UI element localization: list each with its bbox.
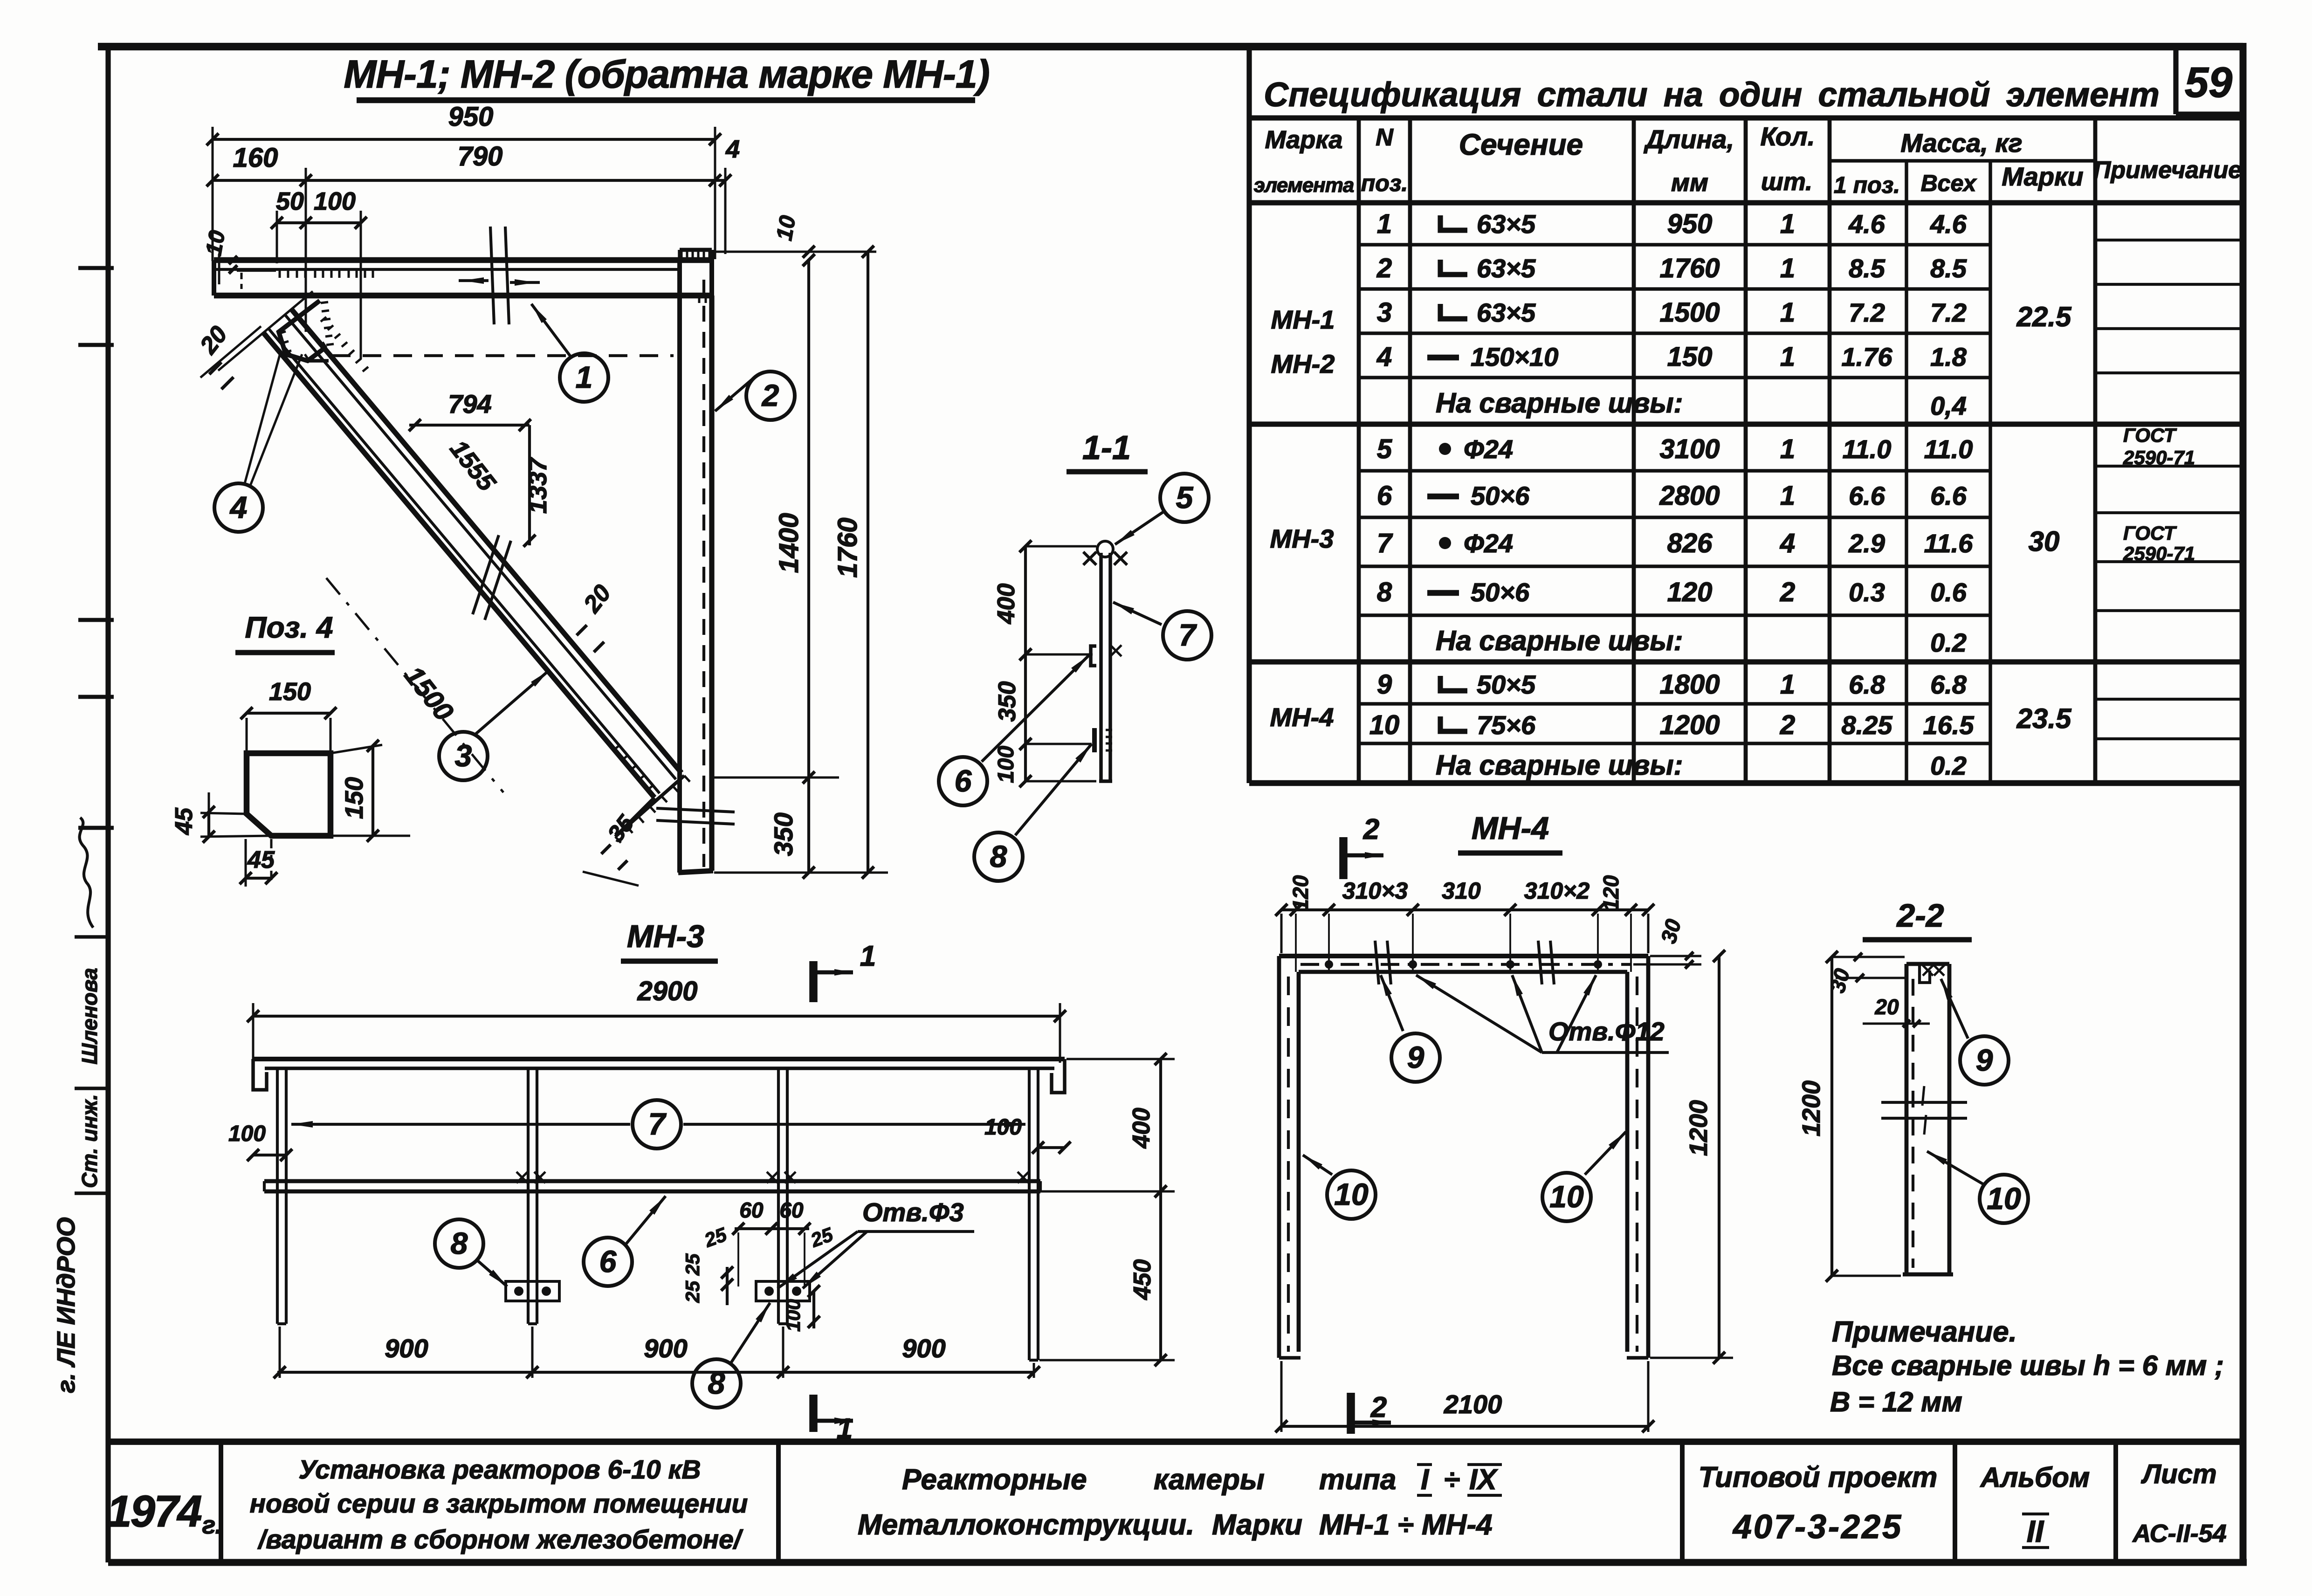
title block album [1980, 1462, 2090, 1548]
mn4 callout 9 [1381, 975, 1440, 1082]
svg-text:1: 1 [1377, 209, 1392, 239]
mn3 callout 8 bottom [692, 1303, 770, 1408]
svg-text:11.0: 11.0 [1924, 434, 1973, 464]
svg-text:310×3: 310×3 [1342, 878, 1408, 904]
svg-text:г.: г. [202, 1511, 222, 1539]
brace pos 3 diagonal angle [264, 309, 690, 843]
callout circle 3 brace [439, 670, 549, 780]
callout circle 4 gusset [214, 354, 302, 532]
mn4 right post pos 10 [1627, 956, 1648, 1358]
svg-text:МН-4: МН-4 [1472, 811, 1549, 846]
svg-text:10: 10 [1549, 1179, 1584, 1214]
mn4 callout 10 right [1542, 1132, 1626, 1221]
svg-text:4: 4 [1780, 528, 1795, 558]
svg-text:50×5: 50×5 [1477, 670, 1536, 699]
svg-text:0.2: 0.2 [1930, 751, 1967, 780]
callout 5 [1115, 474, 1209, 544]
svg-text:2: 2 [1780, 710, 1795, 740]
svg-text:63×5: 63×5 [1477, 298, 1536, 327]
break symbol on brace [473, 535, 511, 620]
svg-text:400: 400 [993, 584, 1020, 625]
svg-text:ГОСТ: ГОСТ [2123, 522, 2177, 544]
svg-text:1: 1 [1780, 253, 1795, 283]
svg-text:100: 100 [984, 1115, 1022, 1140]
svg-text:6.6: 6.6 [1930, 481, 1967, 510]
svg-text:63×5: 63×5 [1477, 254, 1536, 283]
svg-text:100: 100 [314, 187, 356, 215]
mn4 callout 10 left [1303, 1155, 1376, 1219]
svg-text:100: 100 [994, 746, 1018, 783]
svg-text:АС-II-54: АС-II-54 [2132, 1520, 2226, 1548]
mn3 posts pos 7 [277, 1068, 1038, 1360]
svg-text:шт.: шт. [1761, 168, 1812, 196]
mn3 hole dims 60 60 25 [681, 1198, 836, 1332]
spec table outer box and grid [1249, 47, 2243, 783]
svg-text:10: 10 [1334, 1177, 1369, 1211]
svg-text:6: 6 [599, 1244, 617, 1279]
section 1-1 rod pos 5 end [1083, 541, 1127, 565]
svg-text:9: 9 [1377, 669, 1392, 700]
left margin stamp text: signature [80, 818, 93, 928]
mn4 section mark 2 bottom [1351, 1391, 1391, 1434]
svg-text:В = 12 мм: В = 12 мм [1830, 1386, 1962, 1417]
svg-text:9: 9 [1976, 1043, 1993, 1077]
dimension 1400 [774, 254, 815, 784]
spec table title text [1264, 76, 2160, 114]
svg-text:Отв.Ф3: Отв.Ф3 [862, 1197, 964, 1227]
svg-text:59: 59 [2185, 59, 2232, 106]
svg-text:МН-4: МН-4 [1270, 702, 1334, 732]
svg-text:794: 794 [448, 389, 491, 419]
left margin stamp text: Shlenova [77, 968, 102, 1064]
svg-text:1500: 1500 [1659, 297, 1720, 328]
svg-text:4.6: 4.6 [1930, 209, 1967, 239]
svg-text:100: 100 [782, 1299, 804, 1332]
poz4 plate outline [247, 753, 330, 836]
svg-text:60: 60 [739, 1198, 764, 1222]
svg-text:1: 1 [1780, 209, 1795, 239]
view title MN-1; MN-2 (obratna marke MN-1) [344, 52, 989, 100]
mn4 top dimension row 120 310x3 310 310x2 120 [1275, 875, 1654, 972]
svg-text:2: 2 [1376, 253, 1392, 283]
svg-text:8: 8 [451, 1226, 468, 1260]
svg-text:0.2: 0.2 [1930, 628, 1967, 657]
svg-text:0,4: 0,4 [1930, 391, 1967, 420]
svg-text:2590-71: 2590-71 [2123, 447, 2195, 468]
svg-text:950: 950 [448, 102, 494, 132]
svg-text:1337: 1337 [524, 456, 552, 514]
svg-text:150×10: 150×10 [1471, 342, 1558, 371]
section 1-1 bar pos 7 [1099, 553, 1112, 781]
mn3 dimension 900 row [274, 1327, 1040, 1378]
svg-text:60: 60 [779, 1198, 804, 1222]
svg-text:10: 10 [1987, 1181, 2021, 1216]
mn4 label Otv F12 [1416, 975, 1669, 1053]
view title MN-3 [621, 919, 718, 961]
svg-text:10: 10 [1369, 710, 1400, 740]
dimension 50 and 100 [271, 187, 367, 229]
column pos 2 vertical angle [678, 260, 713, 873]
svg-text:50×6: 50×6 [1471, 578, 1530, 607]
svg-text:÷: ÷ [1444, 1464, 1460, 1496]
svg-text:7: 7 [648, 1107, 667, 1141]
svg-text:Поз. 4: Поз. 4 [245, 611, 333, 644]
svg-text:1: 1 [1780, 297, 1795, 328]
svg-text:4.6: 4.6 [1848, 209, 1885, 239]
svg-text:7.2: 7.2 [1930, 298, 1967, 327]
svg-text:новой серии в закрытом помещен: новой серии в закрытом помещении [250, 1489, 748, 1519]
svg-text:7.2: 7.2 [1849, 298, 1885, 327]
svg-text:На сварные швы:: На сварные швы: [1436, 625, 1683, 656]
svg-text:1.76: 1.76 [1842, 342, 1893, 371]
mn4 dimension 2100 [1275, 1361, 1654, 1432]
svg-text:МН-3: МН-3 [1270, 524, 1334, 553]
svg-text:350: 350 [994, 681, 1021, 722]
svg-text:Марка: Марка [1265, 126, 1343, 154]
svg-text:3: 3 [455, 738, 472, 773]
svg-text:поз.: поз. [1361, 170, 1408, 196]
section 2-2 post pos 10 profile [1903, 964, 1953, 1274]
svg-text:400: 400 [1128, 1108, 1155, 1149]
view title MN-4 [1458, 811, 1562, 853]
svg-text:Альбом: Альбом [1980, 1462, 2090, 1493]
right side dimension 10 top [715, 213, 876, 266]
svg-text:Длина,: Длина, [1644, 124, 1734, 154]
svg-text:Металлоконструкции.: Металлоконструкции. [858, 1509, 1194, 1541]
title block grid [108, 1442, 2243, 1562]
svg-text:75×6: 75×6 [1477, 710, 1536, 740]
svg-text:16.5: 16.5 [1923, 710, 1975, 740]
svg-text:120: 120 [1667, 577, 1713, 607]
svg-text:1800: 1800 [1659, 669, 1720, 700]
section 2-2 flange hook pos 9 weld [1920, 964, 1944, 983]
svg-text:1: 1 [1780, 669, 1795, 700]
svg-text:6.8: 6.8 [1930, 670, 1967, 699]
svg-text:Спецификация стали на один: Спецификация стали на один стальной элем… [1264, 76, 2160, 114]
svg-text:камеры: камеры [1154, 1464, 1265, 1496]
svg-text:6: 6 [1377, 481, 1392, 511]
svg-text:1200: 1200 [1659, 710, 1720, 740]
svg-text:Типовой проект: Типовой проект [1699, 1461, 1938, 1493]
svg-text:23.5: 23.5 [2016, 703, 2072, 734]
mn4 section mark 2 top [1343, 813, 1383, 879]
mn3 section mark 1 bottom [813, 1395, 853, 1445]
svg-text:МН-3: МН-3 [627, 919, 704, 954]
poz4 dimension 45 left [171, 792, 271, 843]
dimension 950 [206, 102, 721, 145]
svg-text:Ф24: Ф24 [1464, 434, 1513, 464]
svg-text:900: 900 [644, 1334, 687, 1363]
svg-text:IX: IX [1469, 1464, 1498, 1496]
dimension 20 at gusset [194, 291, 313, 389]
svg-text:310×2: 310×2 [1524, 878, 1590, 904]
detail title Poz. 4 [235, 611, 335, 653]
svg-text:900: 900 [902, 1334, 945, 1363]
svg-text:100: 100 [228, 1121, 266, 1146]
svg-text:10: 10 [772, 213, 801, 242]
poz4 dimension 150 top [241, 678, 337, 753]
svg-text:350: 350 [769, 812, 798, 856]
section 2-2 callout 9 [1941, 979, 2009, 1085]
spec table mark column entries [1270, 305, 1335, 732]
svg-text:6: 6 [955, 764, 972, 798]
svg-text:8: 8 [990, 839, 1007, 874]
svg-text:1400: 1400 [774, 513, 804, 573]
svg-text:Реакторные: Реакторные [902, 1464, 1087, 1496]
svg-text:2.9: 2.9 [1848, 529, 1885, 558]
svg-text:МН-1 ÷ МН-4: МН-1 ÷ МН-4 [1319, 1509, 1493, 1541]
callout 7 [1113, 602, 1211, 660]
svg-text:Ф24: Ф24 [1464, 529, 1513, 558]
svg-text:9: 9 [1407, 1040, 1424, 1074]
svg-text:2800: 2800 [1659, 481, 1720, 511]
title block project name [250, 1455, 748, 1555]
spec table page-number box 59 [2176, 47, 2243, 114]
beam pos 1 horizontal angle [214, 260, 712, 296]
spec table header texts [1254, 122, 2242, 198]
callout 6 [939, 655, 1089, 805]
svg-text:типа: типа [1319, 1464, 1396, 1496]
svg-text:N: N [1376, 124, 1394, 151]
dimension 35 at brace tip [583, 810, 640, 886]
svg-text:45: 45 [247, 846, 275, 874]
spec table marki totals [2016, 301, 2072, 734]
svg-text:Шленова: Шленова [77, 968, 102, 1064]
svg-text:150: 150 [269, 678, 311, 706]
left margin fold ticks [75, 268, 114, 1193]
svg-text:310: 310 [1442, 878, 1481, 904]
dimension 1760 [714, 246, 888, 879]
svg-text:8.5: 8.5 [1849, 254, 1885, 283]
title block project number [1699, 1461, 1938, 1546]
svg-text:6.8: 6.8 [1849, 670, 1885, 699]
svg-text:II: II [2027, 1514, 2044, 1548]
svg-text:950: 950 [1667, 209, 1713, 239]
mn3 anchor plate pos 8 mid [756, 1281, 810, 1301]
svg-text:1: 1 [860, 940, 876, 972]
svg-text:1200: 1200 [1797, 1080, 1825, 1136]
title block sheet name [858, 1464, 1502, 1541]
svg-text:3100: 3100 [1659, 434, 1720, 464]
mn4 bolt holes [1325, 960, 1602, 969]
mn3 dimension 2900 [247, 976, 1066, 1063]
gusset plate pos 4 at brace end [279, 301, 674, 361]
mn3 label Otv F3 [778, 1197, 974, 1288]
section 1-1 plate pos 8 [1094, 728, 1112, 752]
spec table body rows [1369, 209, 1975, 740]
svg-text:На сварные швы:: На сварные швы: [1436, 387, 1683, 419]
dimension 20 on brace lower flange [577, 580, 616, 652]
mn3 callout 7 with span arrows [291, 1100, 1025, 1149]
mn3 callout 8 left [435, 1219, 507, 1286]
svg-text:элемента: элемента [1254, 174, 1354, 197]
svg-text:150: 150 [1667, 342, 1713, 372]
mn4 left post pos 10 [1279, 956, 1300, 1358]
svg-text:1974: 1974 [107, 1486, 201, 1536]
svg-text:20: 20 [1874, 995, 1899, 1019]
mn4 dimension 1200 [1650, 950, 1733, 1364]
svg-text:/вариант в сборном железобетон: /вариант в сборном железобетоне/ [257, 1525, 743, 1555]
section 2-2 dimension 1200 [1797, 951, 1905, 1282]
svg-text:Марки: Марки [2002, 162, 2083, 191]
left margin stamp text: city [52, 1217, 80, 1393]
svg-text:150: 150 [340, 777, 368, 819]
section title 2-2 [1863, 897, 1972, 940]
title block sheet number [2132, 1459, 2226, 1548]
svg-text:8.5: 8.5 [1930, 254, 1967, 283]
svg-text:407-3-225: 407-3-225 [1732, 1508, 1903, 1546]
poz4 dimension 45 bottom [240, 839, 277, 887]
svg-text:7: 7 [1377, 528, 1393, 558]
svg-text:450: 450 [1129, 1259, 1156, 1300]
svg-text:Все сварные швы h = 6 мм ;: Все сварные швы h = 6 мм ; [1832, 1350, 2224, 1381]
spec table GOST notes [2123, 424, 2195, 564]
svg-text:2: 2 [1780, 577, 1795, 607]
svg-text:Примечание: Примечание [2093, 157, 2242, 184]
left side dimension 10 [201, 228, 237, 284]
svg-text:1200: 1200 [1685, 1100, 1713, 1156]
leader 1500 along brace [326, 578, 503, 792]
svg-text:7: 7 [1179, 618, 1197, 652]
svg-text:1 поз.: 1 поз. [1834, 172, 1900, 198]
note text [1830, 1316, 2224, 1417]
extension lines top dims [213, 127, 725, 359]
title block year 1974 [107, 1486, 222, 1539]
svg-text:1: 1 [576, 360, 593, 394]
svg-text:Примечание.: Примечание. [1832, 1316, 2017, 1348]
mn3 callout 6 [584, 1196, 666, 1286]
section 2-2 break mark [1881, 1086, 1967, 1135]
svg-text:На сварные швы:: На сварные швы: [1436, 750, 1683, 781]
svg-text:11.6: 11.6 [1924, 529, 1974, 558]
svg-text:2: 2 [761, 378, 779, 413]
poz4 dimension 150 right [330, 740, 410, 842]
section 2-2 dimension 30 [1825, 953, 1905, 995]
dimension 350 [714, 777, 839, 879]
mn4 top beam pos 9 [1279, 956, 1648, 972]
mn3 dimension 100 left [228, 1121, 292, 1161]
svg-text:Сечение: Сечение [1459, 128, 1583, 161]
svg-text:25 25: 25 25 [681, 1253, 703, 1303]
mn3 dimension 100 right [984, 1115, 1071, 1154]
svg-text:8: 8 [1377, 577, 1392, 607]
svg-text:1: 1 [1780, 481, 1795, 511]
svg-text:10: 10 [201, 228, 230, 257]
svg-text:3: 3 [1377, 297, 1392, 328]
svg-text:900: 900 [385, 1334, 428, 1363]
mn3 flat bar pos 6 [264, 1172, 1040, 1191]
svg-text:1: 1 [1780, 434, 1795, 464]
svg-text:2100: 2100 [1444, 1390, 1502, 1419]
svg-text:МН-2: МН-2 [1271, 349, 1335, 378]
svg-text:826: 826 [1667, 528, 1713, 558]
svg-text:5: 5 [1377, 434, 1392, 464]
mn4 break marks on beam [1375, 941, 1554, 984]
break symbol on beam [459, 227, 540, 324]
svg-text:МН-1: МН-1 [1271, 305, 1335, 334]
break symbol on column [656, 808, 735, 824]
svg-text:2900: 2900 [637, 976, 697, 1006]
svg-text:Отв.Ф12: Отв.Ф12 [1548, 1017, 1665, 1046]
svg-text:4: 4 [1376, 342, 1392, 372]
svg-text:Ст. инж.: Ст. инж. [77, 1094, 102, 1188]
section 2-2 callout 10 [1927, 1151, 2028, 1223]
svg-text:Лист: Лист [2140, 1459, 2216, 1489]
svg-text:8.25: 8.25 [1842, 710, 1893, 740]
svg-text:ГОСТ: ГОСТ [2123, 424, 2177, 446]
triangle reference 794 / 1337 / 1555 [409, 389, 552, 547]
svg-text:11.0: 11.0 [1843, 434, 1892, 464]
svg-text:4: 4 [229, 490, 248, 524]
svg-text:160: 160 [233, 143, 278, 173]
callout circle 1 beam [531, 304, 608, 402]
svg-text:Масса, кг: Масса, кг [1900, 128, 2022, 158]
svg-text:2: 2 [1370, 1391, 1387, 1424]
svg-text:4: 4 [725, 135, 740, 163]
svg-text:Марки: Марки [1212, 1509, 1302, 1541]
mn3 dimensions 400 450 right [1039, 1053, 1175, 1366]
section 1-1 dimensions 400 350 100 [993, 540, 1096, 787]
svg-text:50: 50 [276, 187, 304, 215]
mn4 dimension 30 right [1633, 916, 1701, 969]
callout circle 2 column [715, 371, 795, 420]
section 1-1 cleat pos 6 [1091, 645, 1122, 666]
svg-text:Всех: Всех [1921, 170, 1977, 196]
mn3 top rail pos 5 [253, 1059, 1065, 1093]
svg-text:мм: мм [1671, 169, 1708, 197]
svg-text:I: I [1421, 1464, 1430, 1496]
svg-text:45: 45 [171, 807, 198, 835]
svg-text:6.6: 6.6 [1849, 481, 1885, 510]
section 2-2 dimension 20 [1863, 995, 1930, 1027]
svg-text:Кол.: Кол. [1761, 122, 1815, 151]
svg-text:8: 8 [708, 1366, 725, 1400]
svg-text:г. ЛЕ ИНдРОО: г. ЛЕ ИНдРОО [52, 1217, 80, 1393]
dimension 160 and 790 and 4 [206, 135, 740, 186]
callout 8 [974, 744, 1092, 881]
svg-text:2-2: 2-2 [1896, 897, 1944, 934]
svg-text:63×5: 63×5 [1477, 209, 1536, 239]
svg-text:22.5: 22.5 [2016, 301, 2072, 332]
left margin stamp text: St. inzh. [77, 1094, 102, 1188]
svg-text:1: 1 [1780, 342, 1795, 372]
svg-text:2590-71: 2590-71 [2123, 543, 2195, 564]
svg-text:2: 2 [1363, 813, 1379, 846]
svg-text:1760: 1760 [833, 517, 863, 578]
svg-text:МН-1; МН-2 (обратна марке МН-1: МН-1; МН-2 (обратна марке МН-1) [344, 52, 989, 96]
spec table weld-seam rows [1436, 387, 1967, 781]
mn3 section mark 1 top [813, 940, 876, 1002]
svg-text:790: 790 [458, 141, 503, 172]
svg-text:0.3: 0.3 [1849, 578, 1885, 607]
svg-text:1760: 1760 [1659, 253, 1720, 283]
svg-text:1-1: 1-1 [1082, 429, 1131, 467]
svg-text:1.8: 1.8 [1930, 342, 1967, 371]
mn3 anchor plate pos 8 left [506, 1281, 559, 1301]
svg-text:50×6: 50×6 [1471, 481, 1530, 510]
svg-text:Установка реакторов 6-10 кВ: Установка реакторов 6-10 кВ [298, 1455, 701, 1485]
svg-text:30: 30 [2029, 526, 2060, 557]
svg-text:0.6: 0.6 [1930, 578, 1967, 607]
section title 1-1 [1067, 429, 1148, 472]
svg-text:5: 5 [1176, 480, 1194, 515]
beam right end flange step [680, 250, 712, 303]
